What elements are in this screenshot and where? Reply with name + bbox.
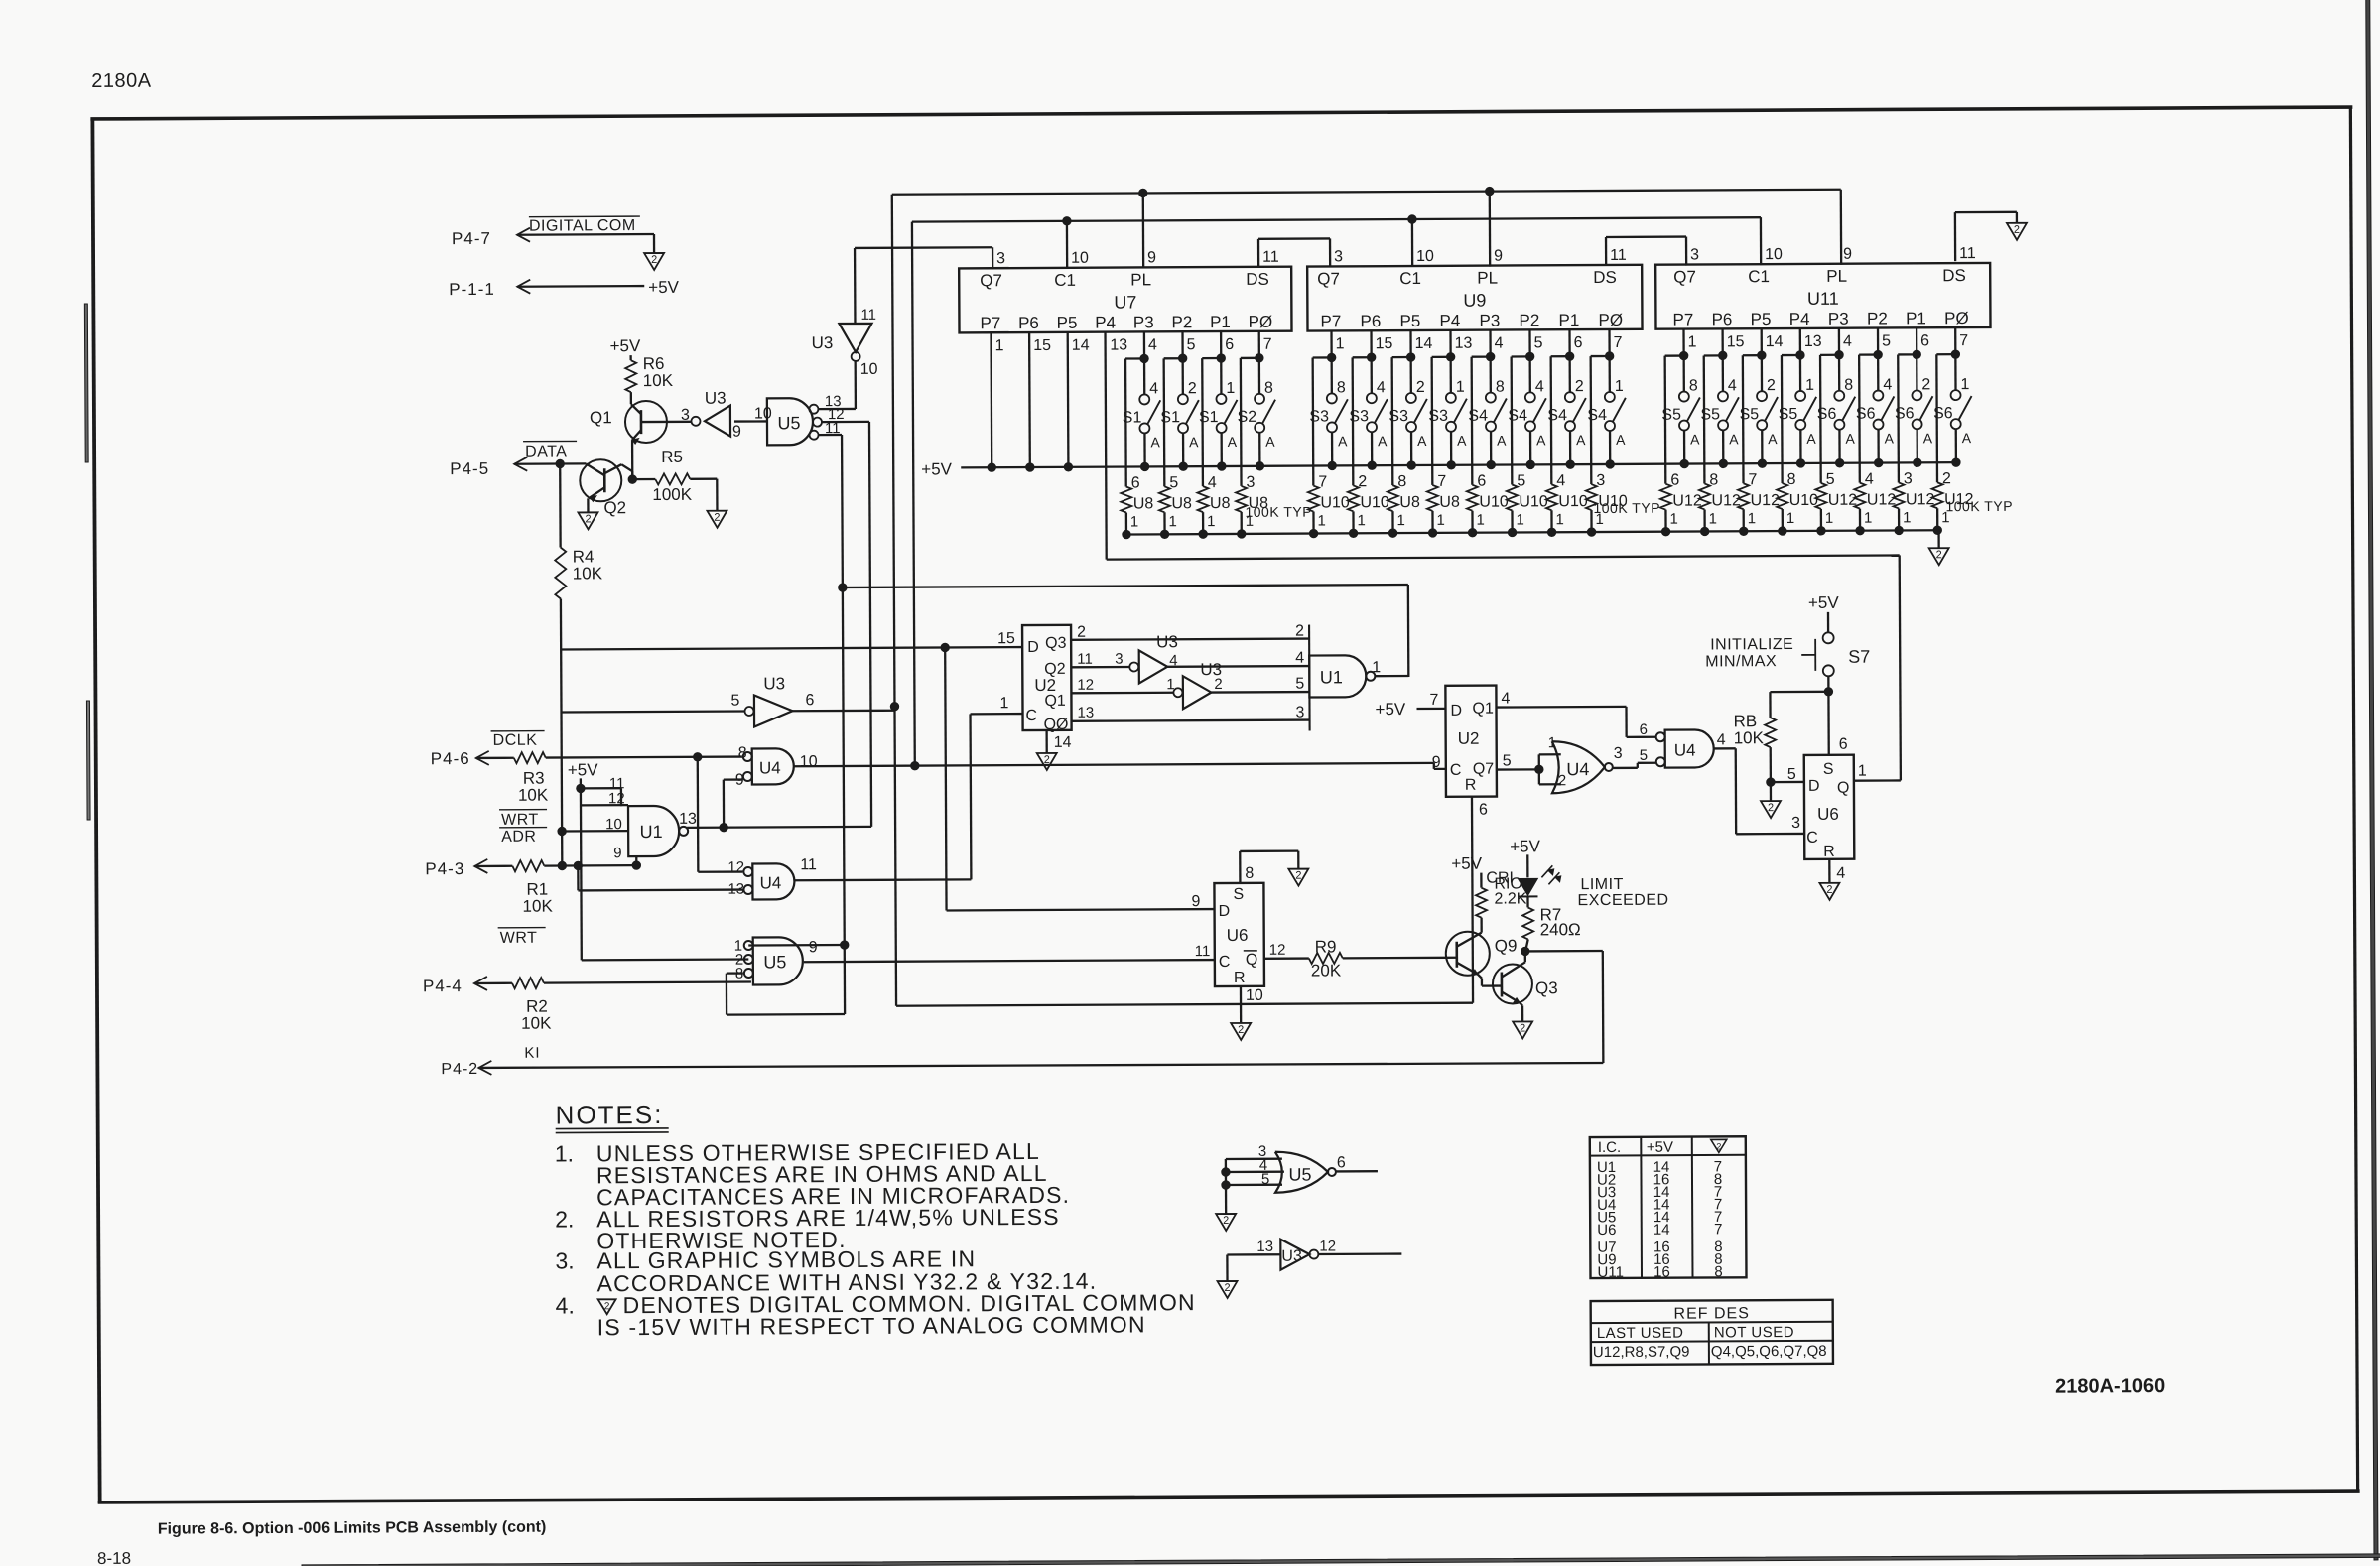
svg-text:C: C	[1025, 708, 1037, 724]
svg-text:10K: 10K	[521, 1014, 552, 1033]
note 3	[555, 1245, 1097, 1297]
svg-text:P7: P7	[1320, 312, 1341, 330]
svg-text:P4-3: P4-3	[425, 859, 464, 878]
node x850 pin1 junction	[841, 941, 849, 949]
svg-text:P1: P1	[1558, 311, 1579, 329]
svg-text:NOT USED: NOT USED	[1714, 1324, 1794, 1341]
label 100K TYP for U12	[1945, 498, 2013, 514]
switch S1 section 1	[1122, 331, 1160, 470]
svg-text:PL: PL	[1826, 267, 1847, 286]
svg-text:A: A	[1806, 431, 1816, 447]
switch S3 section 3	[1388, 330, 1427, 469]
svg-text:2180A-1060: 2180A-1060	[2055, 1375, 2165, 1398]
wire PL bus horizontal	[892, 190, 1841, 195]
label 100K TYP for U8	[1245, 504, 1312, 520]
svg-text:2: 2	[1295, 870, 1301, 882]
ground at U6m reset	[1231, 1023, 1251, 1040]
svg-text:U9: U9	[1463, 291, 1486, 311]
svg-text:DS: DS	[1246, 270, 1269, 289]
svg-text:D: D	[1450, 703, 1462, 719]
svg-text:8: 8	[1689, 378, 1698, 395]
svg-text:PØ: PØ	[1249, 313, 1273, 331]
svg-text:1: 1	[1372, 659, 1381, 676]
wire R8 ground stub	[1770, 782, 1772, 801]
svg-text:DCLK: DCLK	[493, 732, 538, 749]
svg-text:14: 14	[1653, 1222, 1670, 1239]
svg-text:100K: 100K	[652, 485, 692, 504]
svg-text:11: 11	[860, 307, 876, 324]
svg-text:9: 9	[1147, 249, 1156, 266]
connector P4-7 DIGITAL COM	[452, 216, 654, 254]
note 2	[555, 1204, 1060, 1254]
svg-text:13: 13	[1455, 335, 1473, 352]
wire U5c pin1 from x850	[748, 944, 844, 947]
svg-text:2: 2	[1044, 754, 1050, 766]
pin label 4 under U9	[1495, 335, 1504, 352]
resistor U8 pin 5 (pull for S1-2)	[1158, 358, 1192, 538]
wire +5V to U1a pin12	[581, 788, 629, 960]
pin label 6 under U11	[1920, 332, 1929, 349]
svg-text:Q7: Q7	[1317, 269, 1340, 288]
node R8-D junction	[1767, 778, 1775, 786]
wire U6m C label	[1195, 943, 1211, 960]
power +5V at R10	[1451, 854, 1483, 888]
svg-text:S: S	[1233, 886, 1244, 903]
svg-text:2: 2	[1826, 884, 1832, 896]
svg-text:P4-2: P4-2	[441, 1061, 478, 1078]
wire U2cnt pin14 ground	[1047, 730, 1072, 753]
resistor U8 pin 4 (pull for S1-3)	[1197, 358, 1231, 538]
resistor U12 pin 7 (pull for S5-3)	[1737, 355, 1780, 535]
inverter U3e2	[1166, 660, 1223, 709]
svg-text:2: 2	[714, 512, 720, 524]
wire C1 stub U7	[1066, 221, 1069, 269]
svg-text:LAST USED: LAST USED	[1597, 1325, 1684, 1342]
table IC header	[1598, 1138, 1727, 1156]
switch S5 section 3	[1739, 328, 1778, 467]
wire U1b output feedback line	[843, 585, 1408, 680]
resistor U12 pin 4 (pull for S6-6)	[1854, 354, 1897, 534]
svg-text:1: 1	[1516, 511, 1523, 528]
resistor R10	[1476, 875, 1527, 917]
wire U5b input commons	[1222, 1159, 1231, 1214]
svg-text:1: 1	[1805, 377, 1814, 394]
svg-text:U10: U10	[1360, 494, 1389, 511]
svg-text:14: 14	[1072, 337, 1090, 354]
svg-text:P6: P6	[1018, 314, 1039, 332]
svg-text:R5: R5	[661, 448, 683, 466]
svg-text:C1: C1	[1054, 271, 1076, 290]
svg-text:6: 6	[1640, 721, 1648, 738]
svg-text:+5V: +5V	[1808, 593, 1839, 612]
svg-text:1: 1	[1357, 512, 1365, 529]
svg-text:6: 6	[1920, 332, 1929, 349]
resistor U12 pin 5 (pull for S6-5)	[1815, 355, 1858, 535]
svg-text:9: 9	[1191, 893, 1200, 910]
svg-text:2: 2	[585, 513, 591, 525]
svg-text:2: 2	[1188, 380, 1197, 397]
wire K1 line	[478, 951, 1604, 1069]
switch S6 section 6	[1855, 327, 1894, 466]
svg-text:6: 6	[1574, 334, 1583, 351]
nand U1a	[628, 806, 697, 856]
svg-text:A: A	[1768, 431, 1778, 447]
wire D-line from R4 to U2 counter	[561, 647, 1022, 649]
svg-text:1: 1	[1168, 513, 1176, 530]
connector P4-4 WRT	[423, 928, 546, 996]
svg-text:4: 4	[1148, 336, 1157, 353]
svg-text:2: 2	[604, 1301, 610, 1312]
svg-text:2: 2	[1921, 376, 1930, 393]
resistor R4	[555, 547, 603, 598]
svg-text:1: 1	[1748, 510, 1756, 527]
svg-text:+5V: +5V	[648, 278, 679, 297]
svg-text:3: 3	[1115, 651, 1123, 668]
svg-text:U11: U11	[1597, 1264, 1623, 1281]
wire DATA to R4 to D-line and WRT-ADR (vertical x=566)	[560, 464, 562, 866]
wire U3e input ground	[1226, 1254, 1228, 1280]
wire U6r Q out	[1854, 762, 1901, 780]
ground at U6r	[1819, 883, 1839, 900]
svg-text:+5V: +5V	[610, 336, 641, 355]
node PL at U7	[1139, 189, 1147, 196]
svg-text:A: A	[1729, 431, 1739, 447]
wire U7 P6 to bus	[1025, 332, 1034, 471]
svg-text:8: 8	[1844, 377, 1853, 394]
power +5V at R6	[610, 336, 642, 360]
svg-text:1: 1	[1207, 513, 1215, 530]
wire C1 stub U11	[1760, 217, 1763, 265]
wire R9 to Q9 base	[1343, 957, 1447, 960]
svg-text:240Ω: 240Ω	[1540, 920, 1581, 939]
svg-text:A: A	[1338, 433, 1348, 449]
svg-text:2: 2	[1214, 676, 1222, 693]
wire U4a pin9 from U1a output	[724, 780, 742, 828]
nand U1b	[1309, 624, 1382, 730]
svg-text:9: 9	[1432, 754, 1441, 771]
label 100K TYP for U10	[1593, 500, 1660, 516]
wire U3c to U5a pin10	[734, 405, 772, 422]
resistor R6	[625, 354, 674, 392]
resistor R3	[514, 752, 549, 805]
svg-text:1: 1	[1858, 763, 1867, 780]
svg-text:2: 2	[1416, 379, 1425, 396]
svg-text:U1: U1	[640, 822, 663, 842]
ic U6 mid flip-flop	[1214, 883, 1264, 986]
diode CR1 LED	[1486, 865, 1560, 896]
svg-text:12: 12	[1269, 942, 1286, 959]
pin label 4 under U7	[1148, 336, 1157, 353]
svg-text:2: 2	[1224, 1282, 1230, 1294]
svg-text:2: 2	[1295, 623, 1304, 640]
svg-text:9: 9	[1494, 248, 1503, 265]
power +5V switch bus	[921, 455, 1955, 478]
svg-text:10: 10	[1765, 246, 1783, 263]
wire WRT line to U5 pin8 area	[544, 982, 751, 983]
resistor U12 pin 6 (pull for S5-1)	[1659, 355, 1702, 535]
wire U6m D label	[1191, 893, 1200, 910]
page number 8-18	[97, 1549, 131, 1566]
wire Q2 emitter to ground	[587, 498, 589, 512]
svg-text:NOTES:: NOTES:	[556, 1100, 664, 1130]
svg-text:2: 2	[1767, 377, 1776, 394]
svg-text:A: A	[1885, 430, 1895, 446]
svg-text:5: 5	[1640, 747, 1648, 764]
wire U2cnt Q1 out	[1071, 676, 1173, 694]
wire U5c pin8 loop	[727, 973, 845, 1015]
wire U11.DS to ground	[1955, 212, 2017, 261]
inverter U3d	[1115, 632, 1178, 683]
wire Q9 emitter to Q3 base	[1478, 975, 1499, 986]
svg-text:WRT: WRT	[501, 812, 539, 829]
switch S6 section 5	[1816, 328, 1855, 467]
svg-text:5: 5	[730, 693, 739, 710]
node DCLK junction	[694, 753, 702, 761]
svg-text:9: 9	[613, 845, 621, 861]
wire R5 to ground	[690, 479, 717, 511]
switch S4 section 7	[1547, 329, 1586, 468]
wire PL stub U7	[1142, 193, 1145, 268]
wire U9.Q7 to U7.DS bridge	[1258, 238, 1330, 267]
svg-text:KI: KI	[524, 1045, 540, 1062]
wire reset line y1012	[896, 1003, 1473, 1006]
svg-text:1: 1	[1669, 511, 1677, 528]
wire R7 to node	[1526, 939, 1528, 948]
nand U4b	[727, 856, 817, 899]
svg-text:U7: U7	[1114, 292, 1136, 312]
resistor U8 pin 7 (pull for S3-4)	[1426, 357, 1460, 537]
node Q7 split	[1535, 765, 1543, 773]
svg-text:2: 2	[651, 254, 657, 266]
svg-text:D: D	[1027, 639, 1039, 656]
svg-text:8: 8	[1245, 865, 1254, 882]
node PL at U9	[1486, 187, 1494, 195]
svg-text:7: 7	[1614, 334, 1623, 351]
resistor U10 pin 3 (pull for S4-8)	[1585, 356, 1628, 536]
svg-text:3: 3	[996, 250, 1005, 267]
wire C1 bus vertical	[912, 222, 915, 766]
wire U2cnt C input	[970, 695, 1022, 714]
svg-text:P2: P2	[1867, 310, 1888, 328]
svg-text:A: A	[1923, 430, 1933, 446]
resistor U12 pin 3 (pull for S6-7)	[1893, 354, 1935, 534]
connector P4-5 DATA	[450, 441, 577, 478]
resistor U8 pin 8 (pull for S3-3)	[1387, 357, 1420, 537]
svg-text:12: 12	[608, 790, 625, 807]
svg-text:1: 1	[999, 695, 1008, 712]
svg-text:7: 7	[1714, 1221, 1722, 1238]
wire U6m R ground	[1241, 986, 1263, 1023]
svg-text:1: 1	[1548, 734, 1556, 751]
svg-text:PØ: PØ	[1598, 311, 1623, 329]
svg-text:U3: U3	[705, 389, 727, 408]
resistor U10 pin 2 (pull for S3-2)	[1347, 357, 1389, 537]
svg-text:2: 2	[1575, 378, 1584, 395]
nand U4a	[735, 744, 818, 788]
pin label 15 under U11	[1727, 333, 1745, 350]
svg-text:1: 1	[1456, 379, 1465, 396]
svg-text:U8: U8	[1133, 495, 1154, 512]
svg-text:13: 13	[1077, 705, 1094, 721]
pin label 7 under U7	[1263, 336, 1272, 353]
svg-text:4: 4	[1717, 731, 1726, 748]
heading NOTES	[556, 1100, 669, 1133]
inverter U3b	[811, 307, 877, 378]
svg-text:+5V: +5V	[1451, 854, 1482, 873]
svg-text:U11: U11	[1807, 289, 1839, 309]
svg-text:EXCEEDED: EXCEEDED	[1577, 892, 1668, 909]
ground at U11 DS	[2007, 223, 2027, 240]
wire U2ff C label	[1432, 754, 1441, 771]
svg-text:DATA: DATA	[525, 443, 567, 459]
wire U4a output to U2ff clock	[794, 763, 1446, 772]
wire U1a pin9 stub	[613, 845, 636, 865]
svg-text:U4: U4	[759, 873, 781, 892]
wire PL stub U11	[1840, 190, 1843, 265]
svg-text:U8: U8	[1399, 494, 1420, 511]
wire U3f output to PL bus	[793, 710, 895, 713]
svg-text:3: 3	[1690, 246, 1699, 263]
svg-text:U4: U4	[759, 758, 781, 777]
wire PL bus vertical	[892, 195, 896, 1006]
svg-text:6: 6	[1225, 336, 1234, 353]
svg-text:U3: U3	[1281, 1248, 1302, 1265]
wire CR1 to R7	[1526, 896, 1528, 907]
pin label 14 under U9	[1415, 335, 1433, 352]
pin label 13 under U9	[1455, 335, 1473, 352]
svg-text:P6: P6	[1360, 312, 1381, 330]
svg-text:2.2K: 2.2K	[1494, 890, 1526, 907]
ground at R8	[1761, 801, 1781, 818]
svg-text:10K: 10K	[1734, 728, 1765, 747]
svg-text:1: 1	[1130, 513, 1138, 530]
wire U2cnt D pin15	[997, 630, 1015, 647]
svg-text:3: 3	[1791, 815, 1800, 832]
switch S3 section 4	[1428, 330, 1467, 469]
svg-text:Q7: Q7	[980, 271, 1002, 290]
svg-text:4: 4	[1836, 865, 1845, 882]
svg-text:U4: U4	[1674, 741, 1696, 760]
svg-text:A: A	[1576, 432, 1586, 448]
svg-text:P2: P2	[1171, 313, 1192, 331]
ic U2 counter	[1022, 625, 1072, 733]
svg-text:3.: 3.	[555, 1247, 574, 1273]
svg-text:P3: P3	[1828, 310, 1849, 328]
svg-text:6: 6	[1839, 736, 1848, 753]
wire DCLK line	[546, 757, 742, 758]
svg-text:8: 8	[1496, 379, 1505, 396]
svg-text:3: 3	[1295, 705, 1304, 721]
svg-text:3: 3	[1614, 745, 1623, 762]
switch S2 section 4	[1237, 331, 1275, 470]
ground at U5b	[1216, 1214, 1236, 1231]
inverter U3c	[681, 389, 741, 441]
wire U3e2 out	[1211, 676, 1309, 694]
svg-text:Q: Q	[1246, 952, 1258, 969]
svg-text:P4-7: P4-7	[452, 229, 491, 248]
nand U5a	[767, 393, 845, 445]
pin label 4 under U11	[1843, 333, 1852, 350]
svg-text:9: 9	[732, 424, 741, 441]
svg-text:1: 1	[1555, 511, 1563, 528]
svg-text:U8: U8	[1171, 495, 1192, 512]
power +5V at S7	[1808, 593, 1840, 632]
ground at U6m set	[1288, 869, 1308, 886]
svg-text:2: 2	[1716, 1141, 1721, 1151]
svg-text:U6: U6	[1227, 926, 1249, 945]
resistor R9	[1309, 937, 1343, 979]
pin label 1 under U9	[1336, 335, 1345, 352]
ground at U2cnt	[1037, 753, 1057, 770]
switch S7	[1705, 632, 1870, 677]
svg-text:A: A	[1417, 433, 1427, 449]
switch S4 section 6	[1508, 329, 1546, 468]
svg-text:C: C	[1806, 830, 1818, 847]
svg-text:100K TYP: 100K TYP	[1593, 500, 1660, 516]
svg-text:R9: R9	[1315, 937, 1337, 956]
pin label 14 under U11	[1766, 333, 1784, 350]
node R7-Q3-K1 junction	[1521, 947, 1529, 955]
wire U1b output	[1375, 675, 1408, 677]
svg-text:1: 1	[1396, 512, 1404, 529]
wire U7 P7 to bus	[987, 332, 995, 471]
node C1 at U9	[1408, 215, 1416, 223]
svg-text:5: 5	[1534, 334, 1543, 351]
svg-text:P7: P7	[980, 314, 1000, 332]
wire U6r R ground	[1829, 859, 1845, 883]
svg-text:1: 1	[1317, 512, 1325, 529]
resistor U10 pin 7 (pull for S3-1)	[1307, 357, 1350, 537]
switch S6 section 7	[1895, 327, 1933, 466]
svg-text:5: 5	[1787, 766, 1796, 783]
wire U6m Qbar out	[1264, 942, 1309, 959]
svg-text:C1: C1	[1748, 267, 1770, 286]
svg-text:A: A	[1536, 432, 1546, 448]
node C1 bus junction	[911, 761, 919, 769]
transistor Q1	[590, 401, 667, 444]
table REF DES frame	[1591, 1300, 1833, 1365]
node DATA junction	[556, 459, 564, 467]
svg-text:10K: 10K	[518, 786, 549, 805]
svg-text:11: 11	[1262, 249, 1279, 266]
note 1	[555, 1138, 1071, 1211]
power +5V at CR1	[1510, 837, 1541, 877]
svg-text:12: 12	[727, 859, 744, 876]
svg-text:S7: S7	[1848, 647, 1870, 667]
svg-text:Q1: Q1	[1044, 693, 1066, 710]
svg-text:5: 5	[1503, 752, 1512, 769]
switch S1 section 2	[1160, 331, 1199, 470]
svg-text:5: 5	[1295, 676, 1304, 693]
ic U6 right flip-flop	[1804, 755, 1855, 860]
svg-text:3: 3	[681, 407, 690, 424]
wire R8 bottom to D	[1771, 747, 1804, 783]
transistor Q2	[560, 459, 632, 517]
svg-text:8-18: 8-18	[97, 1549, 131, 1566]
svg-text:10: 10	[754, 405, 772, 422]
svg-text:P1: P1	[1906, 309, 1926, 327]
svg-text:A: A	[1962, 430, 1972, 446]
switch S1 section 3	[1199, 331, 1238, 470]
svg-text:1: 1	[1864, 510, 1872, 527]
svg-text:2: 2	[1238, 1024, 1244, 1036]
svg-text:DIGITAL COM: DIGITAL COM	[529, 217, 636, 235]
svg-text:+5V: +5V	[1375, 700, 1405, 718]
resistor R8	[1734, 712, 1777, 747]
wire PL stub U9	[1489, 192, 1492, 267]
svg-text:Q1: Q1	[590, 408, 612, 427]
nand U5c	[734, 937, 818, 984]
